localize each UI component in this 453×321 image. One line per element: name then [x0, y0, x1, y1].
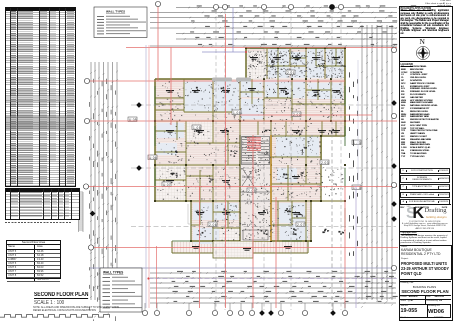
balcony rail [172, 252, 213, 254]
top dimension lines [150, 8, 397, 47]
lower-left outdoor area [154, 202, 191, 242]
revision table [400, 168, 450, 210]
title block [398, 0, 452, 321]
svg-text:2.07: 2.07 [297, 223, 305, 227]
grid lines vertical dashed [216, 10, 341, 310]
balcony [172, 241, 213, 253]
right dimension lines [362, 25, 392, 300]
drawing title text [34, 292, 88, 299]
grid bubbles left [84, 78, 89, 83]
grid bubbles right [391, 47, 396, 52]
main schedule table [5, 7, 76, 187]
area table [6, 240, 61, 279]
svg-text:2.03: 2.03 [321, 161, 329, 165]
svg-text:U.06: U.06 [149, 156, 157, 160]
grid bubbles bottom [142, 310, 147, 315]
datum line purple lower [149, 278, 398, 280]
castellated datum line [0, 312, 112, 320]
svg-text:2.05: 2.05 [248, 189, 256, 193]
stair core [240, 135, 271, 241]
bathroom fixtures [170, 55, 345, 235]
building outline walls [155, 79, 345, 241]
right annotation strip [349, 72, 358, 256]
svg-text:1.05: 1.05 [193, 126, 201, 130]
datum line blue top [202, 51, 246, 53]
bubble stems bottom [145, 303, 345, 310]
builders application note [401, 7, 449, 10]
grid lines horizontal dashed [131, 105, 396, 227]
wall types legend top [94, 7, 147, 38]
svg-text:WALL TYPES: WALL TYPES [106, 10, 125, 14]
stair flight hatch [240, 137, 271, 241]
datum line blue vertical [145, 45, 147, 308]
wall types legend bottom [100, 268, 142, 312]
svg-text:1.08: 1.08 [233, 111, 241, 115]
copyright note [401, 232, 449, 245]
red setout vertical [148, 45, 150, 308]
red grid lines horizontal [88, 48, 398, 248]
interior walls [155, 48, 345, 241]
drawing title fields [399, 281, 451, 282]
stair ladder detail [79, 192, 84, 232]
svg-text:2.06: 2.06 [209, 223, 217, 227]
room labels [166, 57, 340, 251]
stair red hatch [247, 137, 261, 151]
bedroom rooms [157, 49, 344, 244]
parked objects [212, 78, 232, 82]
svg-text:WALL TYPES: WALL TYPES [103, 271, 123, 275]
red grid lines vertical [158, 6, 345, 308]
client / project box [399, 245, 452, 281]
north arrow [420, 37, 425, 46]
level diamond left [90, 211, 95, 216]
detail speckles [158, 50, 345, 241]
lintel table [5, 188, 80, 220]
unit labels [128, 70, 361, 227]
left dimension lines [91, 62, 117, 300]
SK Drafting logo [406, 205, 416, 223]
right notch (outdoor) [322, 137, 347, 201]
svg-text:1.3: 1.3 [353, 141, 361, 145]
datum line blue horizontal [90, 267, 397, 269]
level diamonds [136, 102, 141, 107]
grid bubbles top [213, 4, 218, 9]
bottom dimension lines [150, 273, 396, 303]
columns [154, 47, 346, 242]
window frames [155, 48, 345, 241]
landing tiles [213, 241, 253, 258]
legend [401, 62, 414, 66]
